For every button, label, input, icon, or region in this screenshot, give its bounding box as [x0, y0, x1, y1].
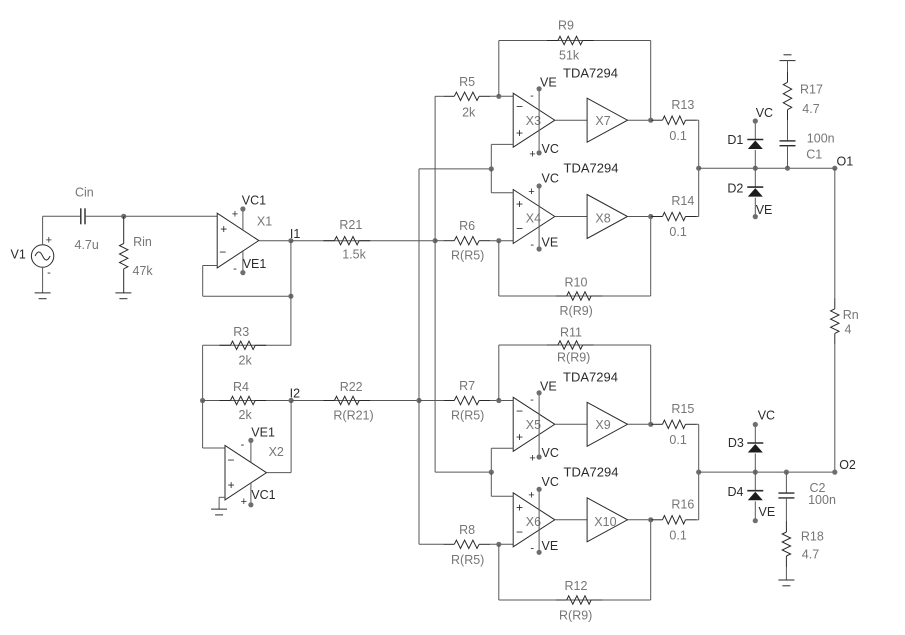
ground V1 [35, 293, 51, 299]
X2 VC1 pin [248, 483, 253, 508]
label X2 [269, 445, 284, 459]
svg-text:R5: R5 [459, 75, 475, 89]
wire R feed X4 [490, 240, 513, 242]
X1 inner minus [219, 245, 226, 259]
wire R14 to bus [697, 216, 699, 218]
label I2 [290, 386, 300, 400]
svg-text:VE: VE [540, 76, 557, 90]
label R18 [801, 530, 824, 544]
value R17 4.7 [802, 102, 819, 116]
label O1 [837, 155, 854, 169]
wire X9 out to R [650, 423, 653, 425]
label R9 [558, 19, 574, 33]
value R15 0.1 [669, 433, 686, 447]
svg-text:4.7: 4.7 [802, 547, 819, 561]
value R18 4.7 [802, 547, 819, 561]
wire Rin bottom [123, 269, 125, 293]
wire X6 plus in [491, 495, 513, 497]
label D2 [727, 182, 743, 196]
value R13 0.1 [669, 129, 686, 143]
svg-text:D4: D4 [728, 485, 744, 499]
svg-text:R13: R13 [671, 98, 694, 112]
wire busA bottom turn [419, 543, 443, 545]
X4 inner minus [516, 221, 523, 235]
resistor R16 [652, 516, 697, 524]
label VC of X3 [542, 142, 559, 156]
wire X4 plus vert [490, 169, 492, 193]
wire feedback top X3 [499, 40, 651, 42]
wire busA top turn [419, 168, 491, 170]
svg-text:0.1: 0.1 [669, 225, 686, 239]
svg-text:O2: O2 [839, 458, 856, 472]
svg-text:X10: X10 [594, 515, 616, 529]
wire busB top turn [435, 95, 443, 97]
node X1 feedback [288, 294, 293, 299]
wire X7 out to R [650, 119, 653, 121]
op-amp X4 [513, 190, 555, 244]
value R5 2k [462, 105, 476, 119]
label V1 [11, 248, 26, 262]
label X4 [526, 212, 541, 226]
svg-text:VC1: VC1 [242, 194, 266, 208]
svg-text:2k: 2k [239, 408, 253, 422]
wire O2 line [699, 471, 835, 473]
svg-text:VC: VC [758, 408, 775, 422]
label VE of X5 [540, 380, 557, 394]
wire Rin top [123, 216, 125, 243]
label R8 [459, 523, 475, 537]
wire I1 vertical [290, 241, 292, 346]
value R8 R(R5) [451, 553, 484, 567]
wire feedback bottom X4 [499, 295, 651, 297]
wire feedback bottom X6 [499, 599, 651, 601]
wire feedback top X5 [499, 344, 651, 346]
wire line to D4 [754, 472, 756, 491]
svg-text:−: − [227, 453, 234, 467]
wire Cin to node [85, 215, 124, 217]
svg-text:47k: 47k [133, 264, 154, 278]
svg-text:R15: R15 [671, 402, 694, 416]
label Rn [843, 308, 859, 322]
label X7 [595, 114, 610, 128]
value R21 1.5k [342, 248, 366, 262]
wire X1 feedback a [203, 265, 218, 267]
X3 inner minus [516, 100, 523, 114]
svg-text:VE: VE [540, 380, 557, 394]
svg-text:R(R5): R(R5) [451, 409, 484, 423]
wire X2 output [267, 472, 292, 474]
svg-text:R4: R4 [233, 380, 249, 394]
wire D4 to VE [753, 501, 758, 523]
wire feedback up X10 [650, 520, 652, 600]
label VE below D2 [756, 203, 773, 217]
label R16 [671, 498, 694, 512]
wire X5 out [555, 423, 587, 425]
resistor R15 [652, 420, 697, 428]
wire right bus top [698, 120, 700, 216]
svg-text:R9: R9 [558, 19, 574, 33]
label X10 [594, 515, 616, 529]
label VC of X4 [542, 172, 559, 186]
X3 top pin sign [530, 90, 534, 102]
label R6 [459, 219, 475, 233]
label D3 [728, 436, 744, 450]
svg-text:+: + [516, 197, 523, 211]
X5 inner plus [516, 430, 523, 444]
value Rn 4 [845, 322, 852, 336]
svg-text:R(R21): R(R21) [333, 409, 373, 423]
op-amp X2 [225, 445, 267, 500]
wire O1 down to Rn [834, 168, 836, 298]
svg-text:TDA7294: TDA7294 [563, 370, 618, 385]
node X6 minus [496, 542, 501, 547]
resistor R12 [556, 596, 602, 604]
label TDA7294 of X5 [563, 370, 618, 385]
wire C1 to line [787, 146, 789, 169]
label R15 [671, 402, 694, 416]
node plus common X3 [489, 166, 494, 171]
label Cin [75, 186, 94, 200]
value R12 R(R9) [559, 609, 592, 623]
label VE1 of X2 [251, 426, 275, 440]
label VE of X6 [542, 539, 559, 553]
label TDA7294 of X4 [564, 161, 619, 176]
wire X2 plus down [218, 497, 220, 509]
svg-text:+: + [528, 186, 534, 198]
wire V1 top to Cin [42, 216, 44, 245]
wire X1 feedback b [202, 266, 204, 297]
svg-text:VC: VC [542, 475, 559, 489]
label R3 [233, 325, 249, 339]
wire line to C2 [785, 472, 787, 493]
svg-text:R11: R11 [560, 326, 582, 340]
X1 VE1 pin [240, 250, 245, 275]
label R5 [459, 75, 475, 89]
resistor Rn [831, 298, 839, 345]
node X8 out [648, 214, 653, 219]
value C2 100n [808, 493, 836, 507]
wire X7 out [628, 119, 651, 121]
svg-text:+: + [529, 452, 535, 464]
svg-text:0.1: 0.1 [669, 528, 686, 542]
ground Rin [115, 293, 131, 299]
label VE of X4 [542, 236, 559, 250]
label X8 [595, 212, 610, 226]
resistor R17 [783, 71, 791, 120]
wire X3 plus vert [490, 144, 492, 169]
node C branch top [785, 166, 790, 171]
op-amp X3 [513, 93, 555, 147]
node Cin-Rin [121, 214, 126, 219]
value R11 R(R9) [557, 351, 590, 365]
wire R3 row [203, 344, 291, 346]
VC pin above D1 [753, 118, 758, 139]
node X3 minus [496, 94, 501, 99]
wire X10 out [628, 519, 651, 521]
resistor R11 [547, 341, 594, 349]
svg-text:+: + [228, 478, 235, 492]
svg-text:R21: R21 [339, 218, 362, 232]
wire X4 minus down [498, 241, 500, 296]
node C branch bottom [784, 470, 789, 475]
wire D2 to VE [753, 198, 758, 220]
svg-text:X8: X8 [595, 212, 610, 226]
resistor R8 [443, 540, 490, 548]
value R16 0.1 [669, 528, 686, 542]
X4 top pin sign [528, 186, 534, 198]
svg-text:VC1: VC1 [251, 488, 275, 502]
wire R17 to C1 [787, 121, 789, 141]
wire X2 plus in [219, 496, 225, 498]
wire feedback up X8 [650, 217, 652, 297]
svg-text:−: − [219, 245, 226, 259]
svg-text:D3: D3 [728, 436, 744, 450]
svg-text:TDA7294: TDA7294 [564, 161, 619, 176]
node X4 minus [496, 238, 501, 243]
svg-text:Cin: Cin [75, 186, 94, 200]
wire X6 minus down [498, 544, 500, 600]
label R4 [233, 380, 249, 394]
buffer X7 [587, 98, 627, 142]
svg-text:VE: VE [756, 203, 773, 217]
capacitor C2 [778, 493, 794, 498]
node I1 [288, 238, 293, 243]
ground X2 [211, 509, 227, 515]
svg-text:C1: C1 [806, 148, 822, 162]
value R10 R(R9) [560, 304, 593, 318]
resistor R3 [219, 341, 266, 349]
value R7 R(R5) [451, 409, 484, 423]
V1 minus sign [47, 267, 51, 279]
svg-text:-: - [47, 267, 51, 279]
svg-text:I2: I2 [290, 386, 300, 400]
label R21 [339, 218, 362, 232]
value R3 2k [239, 353, 253, 367]
value R22 R(R21) [333, 409, 373, 423]
value Rin 47k [133, 264, 154, 278]
svg-text:R22: R22 [340, 380, 363, 394]
svg-text:X7: X7 [595, 114, 610, 128]
wire node to X1 [124, 215, 218, 217]
svg-text:I1: I1 [290, 227, 300, 241]
label Rin [133, 235, 152, 249]
label C1 [806, 148, 822, 162]
X1 VC1 pin [240, 206, 245, 230]
node D branch bottom [753, 470, 758, 475]
label VC1 of X1 [242, 194, 266, 208]
node I1 busB [433, 238, 438, 243]
svg-text:O1: O1 [837, 155, 854, 169]
resistor R21 [323, 237, 370, 245]
value R14 0.1 [669, 225, 686, 239]
svg-text:4.7u: 4.7u [75, 238, 99, 252]
wire X5 plus vert [490, 448, 492, 472]
label R12 [565, 579, 588, 593]
resistor R10 [556, 292, 602, 300]
svg-text:R16: R16 [671, 498, 694, 512]
wire X9 out [628, 423, 651, 425]
wire ground to R17 [787, 61, 789, 72]
wire X4 out [555, 216, 587, 218]
svg-text:100n: 100n [808, 493, 836, 507]
X6 supply pin line [537, 487, 542, 555]
X1 inner plus [220, 222, 227, 236]
svg-text:R10: R10 [565, 276, 588, 290]
resistor R7 [443, 396, 490, 404]
wire R4 row [203, 400, 292, 402]
svg-text:Rn: Rn [843, 308, 859, 322]
svg-text:0.1: 0.1 [669, 129, 686, 143]
wire X8 out [628, 216, 651, 218]
X4 supply pin line [537, 183, 542, 251]
wire R4 node down [202, 401, 204, 449]
wire R16 to bus [697, 519, 699, 521]
wire V1 top horizontal [43, 215, 81, 217]
svg-text:R6: R6 [459, 219, 475, 233]
svg-text:D2: D2 [727, 182, 743, 196]
X6 inner plus [516, 501, 523, 515]
wire V1 bottom [42, 267, 44, 293]
svg-text:2k: 2k [239, 353, 253, 367]
resistor R4 [219, 396, 266, 404]
wire X6 out [555, 519, 587, 521]
svg-text:+: + [232, 209, 238, 221]
node plus common X5 [489, 470, 494, 475]
wire C2 to R18 [785, 498, 787, 521]
label VC of X6 [542, 475, 559, 489]
X2 inner plus [228, 478, 235, 492]
wire busB bottom turn [435, 471, 491, 473]
buffer X9 [587, 402, 627, 446]
X2 VC1 pin plus [241, 496, 247, 508]
svg-text:Rin: Rin [133, 235, 152, 249]
X2 inner minus [227, 453, 234, 467]
svg-text:+: + [46, 235, 52, 247]
node D branch top [753, 166, 758, 171]
capacitor Cin [81, 208, 85, 224]
resistor R13 [652, 116, 697, 124]
node X5 minus [496, 398, 501, 403]
node X7 out [648, 118, 653, 123]
wire R feed X5 [490, 400, 513, 402]
label VC above D3 [758, 408, 775, 422]
label R10 [565, 276, 588, 290]
svg-text:R(R9): R(R9) [559, 609, 592, 623]
label C2 [810, 481, 826, 495]
wire busA to R7 [419, 400, 443, 402]
svg-text:51k: 51k [559, 49, 580, 63]
wire X2 output up [290, 401, 292, 473]
resistor R18 [782, 521, 790, 567]
svg-text:X2: X2 [269, 445, 284, 459]
svg-text:−: − [516, 525, 523, 539]
value R4 2k [239, 408, 253, 422]
X4 bottom pin sign [530, 239, 534, 251]
svg-text:VE1: VE1 [243, 257, 267, 271]
ground above R17 [780, 55, 796, 61]
resistor R6 [443, 237, 490, 245]
wire X3 plus in [491, 143, 513, 145]
label R17 [800, 83, 823, 97]
svg-text:2k: 2k [462, 105, 476, 119]
wire X10 out to R [650, 519, 653, 521]
wire R15 to bus [697, 423, 699, 425]
label O2 [839, 458, 856, 472]
terminal O1 [832, 166, 837, 171]
label VE1 of X1 [243, 257, 267, 271]
terminal O2 [832, 470, 837, 475]
X1 VE1 pin minus [233, 263, 237, 275]
svg-text:X9: X9 [595, 418, 610, 432]
label R13 [671, 98, 694, 112]
wire right bus bottom [698, 424, 700, 520]
resistor R5 [443, 92, 490, 100]
X5 inner minus [516, 404, 523, 418]
svg-text:-: - [530, 90, 534, 102]
value R6 R(R5) [451, 249, 484, 263]
node O1 bus [696, 166, 701, 171]
svg-text:+: + [529, 148, 535, 160]
node X10 out [648, 517, 653, 522]
svg-text:−: − [516, 100, 523, 114]
label VC of X5 [542, 446, 559, 460]
value R9 51k [559, 49, 580, 63]
X6 top pin sign [528, 489, 534, 501]
X5 supply pin line [537, 390, 542, 459]
svg-text:-: - [530, 239, 534, 251]
label I1 [290, 227, 300, 241]
diode D4 [747, 491, 763, 501]
X6 inner minus [516, 525, 523, 539]
wire R feed X3 [490, 95, 513, 97]
diode D3 [747, 443, 763, 453]
X3 inner plus [516, 126, 523, 140]
op-amp X6 [513, 493, 555, 547]
wire R18 to ground [785, 567, 787, 580]
label R7 [459, 379, 475, 393]
label VE of X3 [540, 76, 557, 90]
label D1 [727, 133, 743, 147]
op-amp X5 [513, 397, 555, 451]
svg-text:TDA7294: TDA7294 [563, 66, 618, 81]
svg-text:R(R5): R(R5) [451, 553, 484, 567]
label X9 [595, 418, 610, 432]
svg-text:+: + [241, 496, 247, 508]
wire X5 minus up [498, 345, 500, 401]
V1 plus sign [46, 235, 52, 247]
capacitor C1 [780, 141, 796, 146]
wire feedback down X9 [650, 345, 652, 424]
label X1 [257, 214, 272, 228]
svg-text:0.1: 0.1 [669, 433, 686, 447]
diode D1 [747, 140, 763, 150]
wire X4 plus in [491, 192, 513, 194]
svg-text:4: 4 [845, 322, 852, 336]
node I2 [289, 398, 294, 403]
node I2 busA [416, 398, 421, 403]
wire X3 minus up [498, 41, 500, 97]
X2 VE1 pin [248, 438, 253, 463]
X5 bottom pin sign [529, 452, 535, 464]
svg-text:R(R9): R(R9) [560, 304, 593, 318]
label X3 [526, 114, 541, 128]
svg-text:-: - [241, 439, 245, 451]
svg-text:+: + [516, 126, 523, 140]
resistor R14 [652, 212, 697, 220]
X4 inner plus [516, 197, 523, 211]
svg-text:VE: VE [542, 539, 559, 553]
buffer X8 [587, 195, 627, 239]
